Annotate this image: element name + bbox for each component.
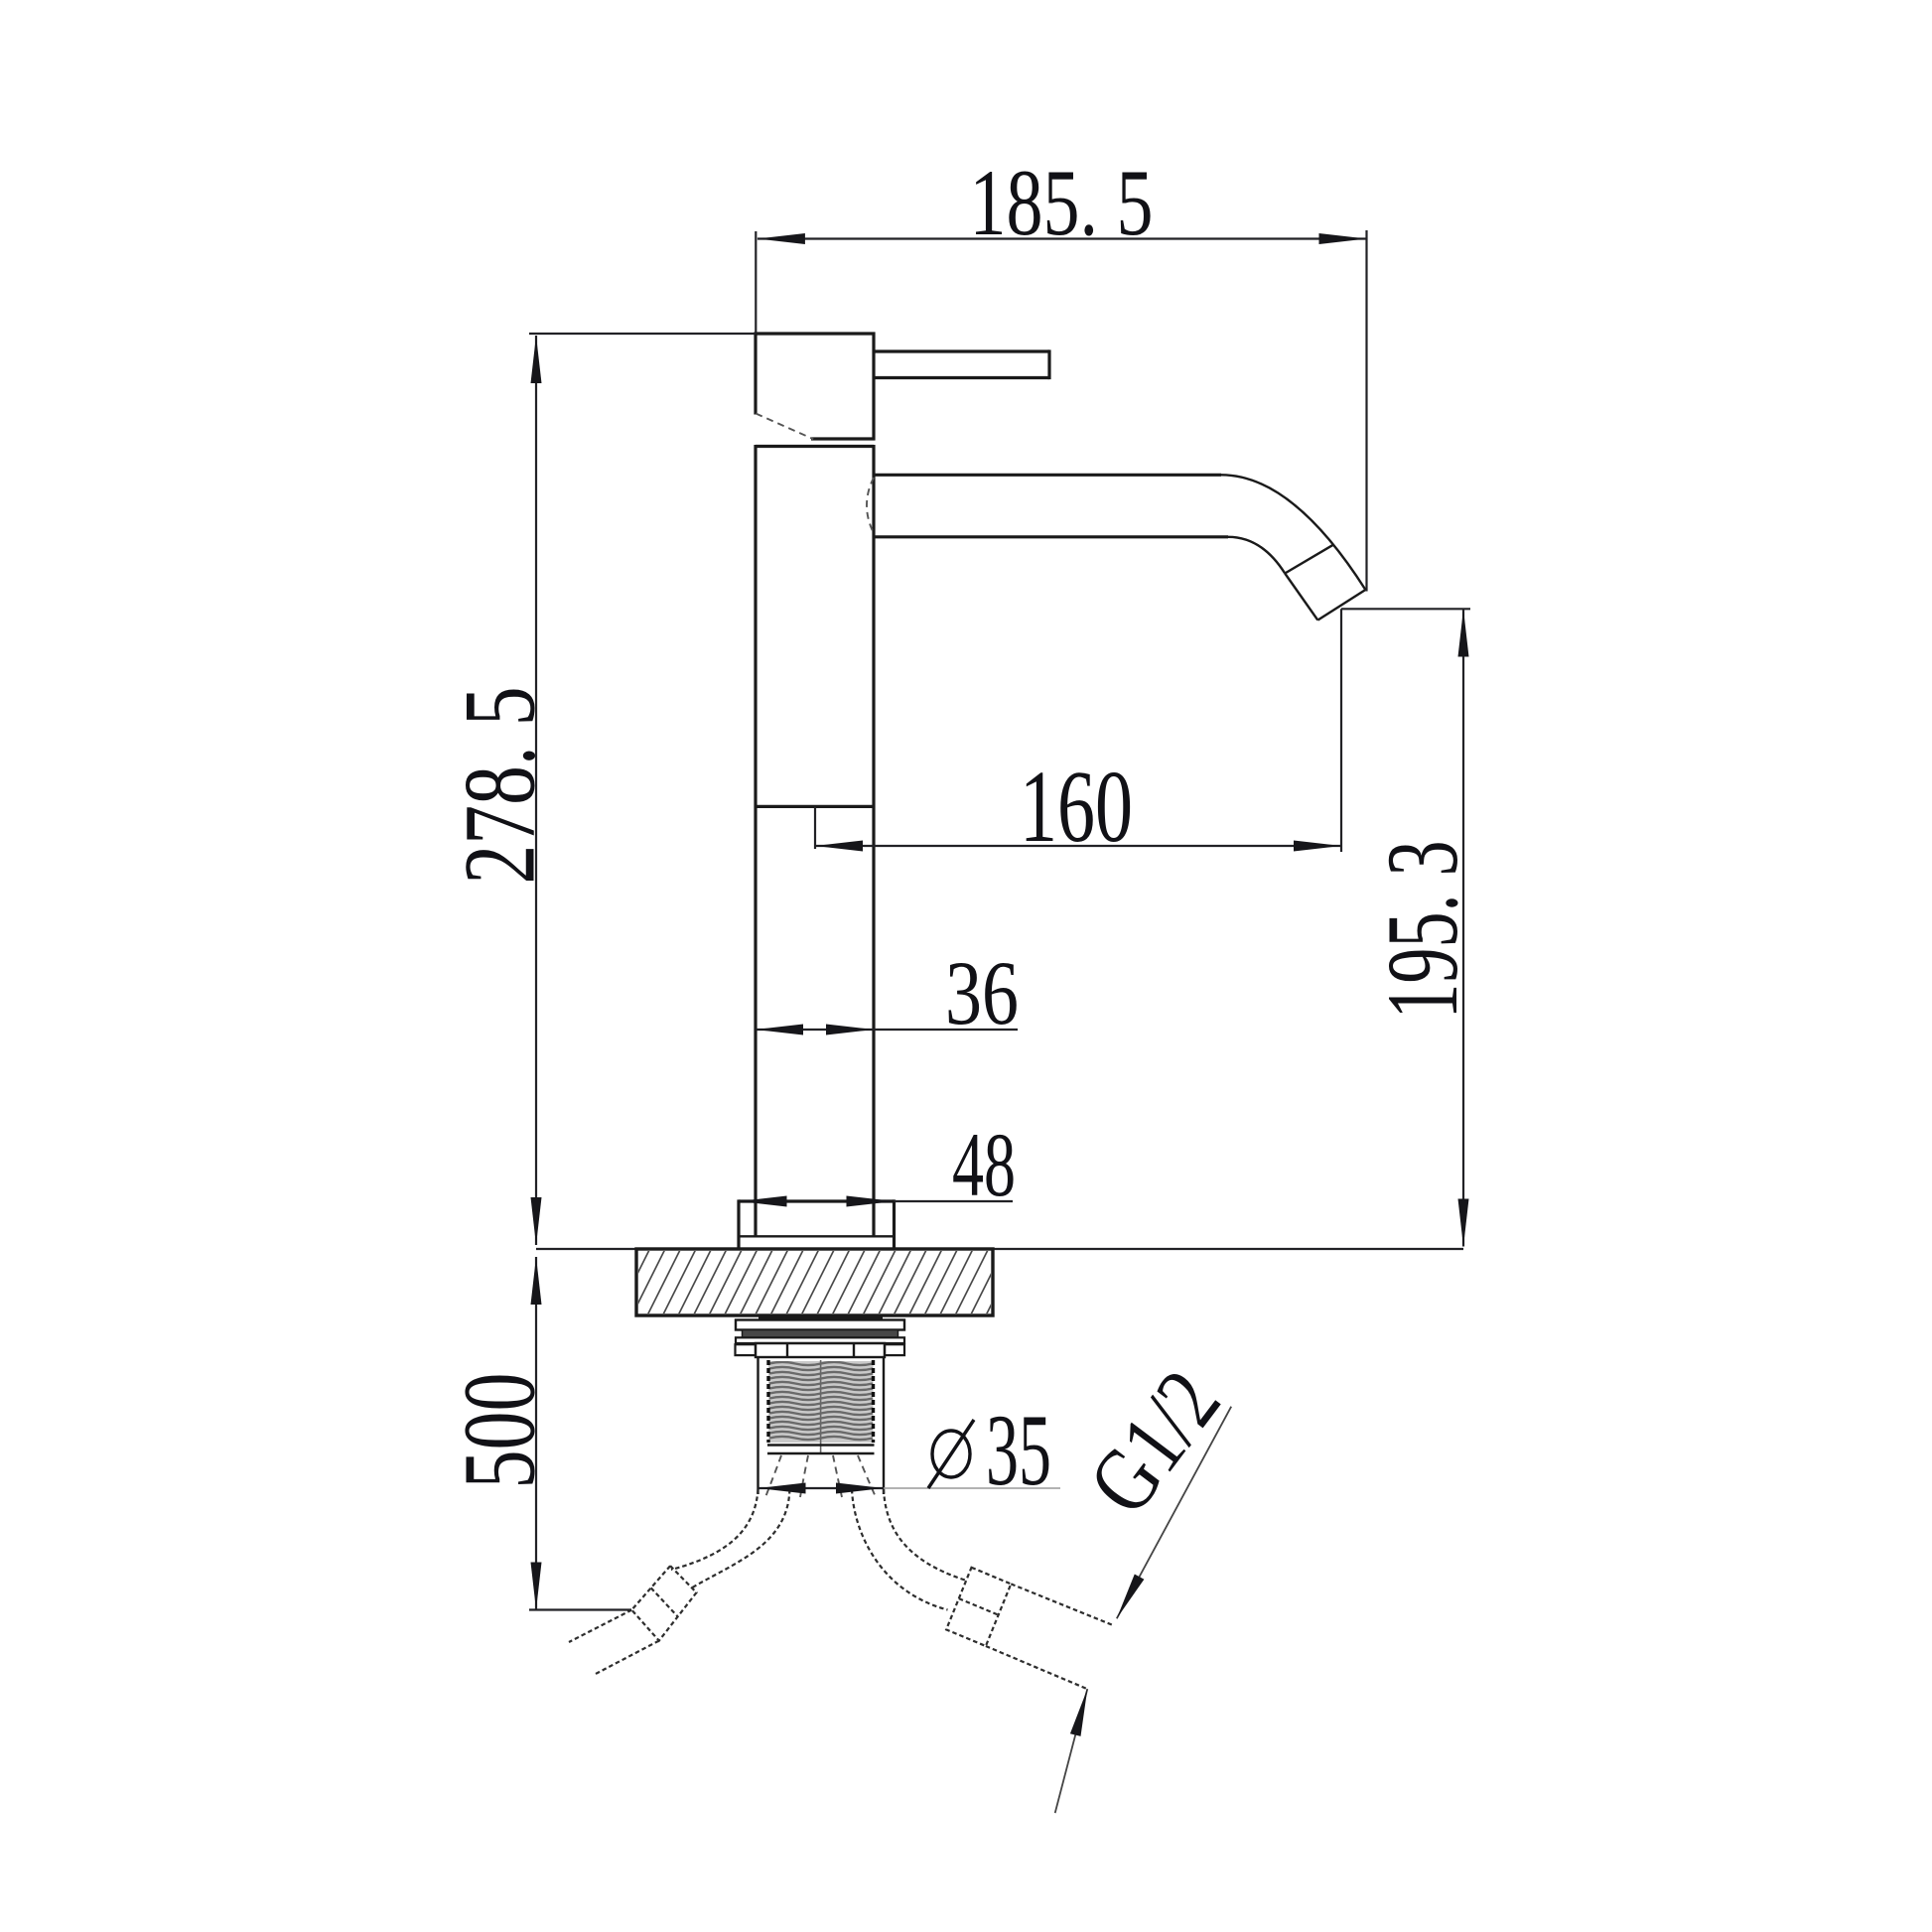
svg-text:48: 48 [952, 1114, 1016, 1215]
svg-text:36: 36 [945, 942, 1019, 1043]
svg-text:278. 5: 278. 5 [444, 687, 557, 885]
svg-text:500: 500 [443, 1373, 557, 1489]
svg-text:185. 5: 185. 5 [970, 150, 1154, 255]
svg-text:195. 3: 195. 3 [1366, 841, 1479, 1020]
svg-text:160: 160 [1020, 750, 1133, 864]
svg-text:35: 35 [986, 1394, 1051, 1507]
